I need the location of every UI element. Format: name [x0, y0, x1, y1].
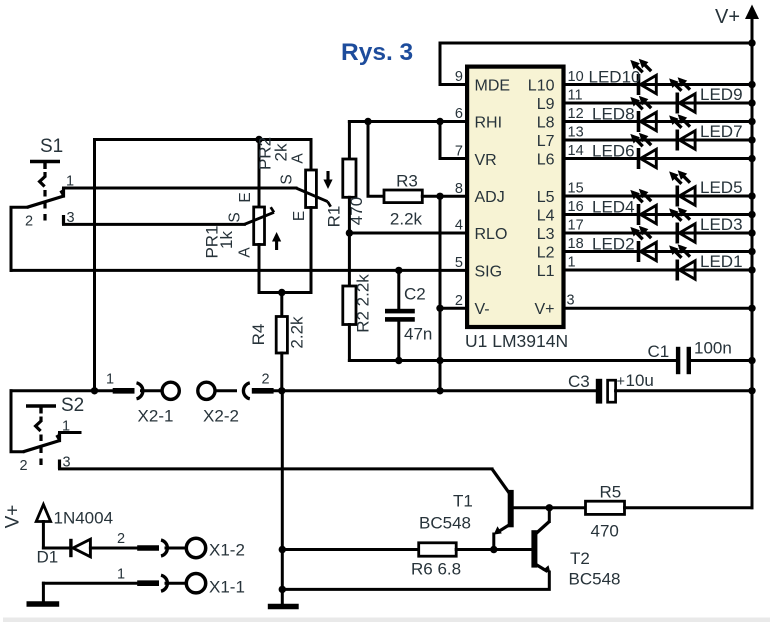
ground (center): [268, 604, 299, 609]
svg-text:LED5: LED5: [700, 178, 743, 197]
wire S1 contact1 to PR2 wiper: [64, 187, 297, 190]
node SIG/C2 junction: [395, 267, 402, 274]
svg-text:RLO: RLO: [475, 226, 508, 243]
svg-text:2.2k: 2.2k: [288, 316, 307, 349]
svg-text:X2-1: X2-1: [138, 407, 174, 426]
svg-text:1: 1: [568, 255, 576, 271]
potentiometer PR1 1k: [203, 192, 282, 258]
wire pin2 V-: [440, 307, 465, 310]
node ADJ junction: [436, 193, 443, 200]
resistor R1: [325, 159, 367, 227]
svg-text:LED1: LED1: [700, 252, 743, 271]
svg-text:100n: 100n: [694, 339, 732, 358]
svg-text:16: 16: [568, 199, 584, 215]
IC U1 right pin numbers 10-18 1 3: [567, 69, 584, 309]
svg-text:A: A: [290, 153, 307, 164]
V+ power flag bottom left: [3, 505, 51, 549]
wire S2 contact3 to T1 collector: [60, 467, 493, 470]
connector X1-2: [117, 531, 245, 560]
wire PR2 bottom: [310, 208, 313, 293]
wire MDE top loop: [440, 43, 752, 85]
svg-text:R6 6.8: R6 6.8: [411, 560, 461, 579]
wire X2 bus middle: [274, 389, 596, 392]
capacitor C3 10u: [568, 371, 654, 404]
node V- pin2 junction: [436, 305, 443, 312]
wire S1 contact3 to PR1 wiper: [64, 223, 245, 226]
wire C1 to rail: [691, 359, 752, 362]
node C2/V- bus junction: [395, 357, 402, 364]
capacitor C1: [648, 339, 732, 375]
wire L9 row: [566, 102, 753, 105]
wire T2 collector up to R5 row: [548, 508, 551, 522]
svg-text:X1-1: X1-1: [209, 578, 245, 597]
svg-text:10u: 10u: [626, 371, 654, 390]
svg-text:L6: L6: [537, 151, 555, 168]
svg-text:R3: R3: [396, 172, 418, 191]
svg-text:L1: L1: [537, 263, 555, 280]
svg-text:A: A: [237, 247, 254, 258]
LED LED9: [669, 77, 742, 113]
connector X1-1: [117, 567, 245, 597]
wire R6 to T2 base: [456, 548, 531, 551]
wire R1 bottom to RLO: [348, 197, 351, 233]
node top wire/rail junction: [748, 39, 755, 46]
resistor R3: [384, 172, 423, 229]
V+ rail (right side): [751, 43, 754, 508]
svg-text:2: 2: [25, 214, 33, 230]
node emitter bus/ground column junction: [279, 586, 286, 593]
svg-text:1: 1: [106, 372, 114, 388]
svg-text:S: S: [279, 174, 296, 184]
wire top pot bus: [95, 140, 312, 391]
node L8/rail junction: [748, 118, 755, 125]
svg-text:2: 2: [262, 372, 270, 388]
svg-text:C1: C1: [648, 342, 670, 361]
wire L10 row: [566, 83, 753, 86]
node L10/rail junction: [748, 81, 755, 88]
svg-text:BC548: BC548: [569, 570, 621, 589]
IC U1 body: [467, 67, 563, 327]
wire R4 top: [280, 293, 283, 317]
svg-text:ADJ: ADJ: [475, 189, 505, 206]
LED LED5: [669, 170, 742, 206]
wire T1 base to R5: [514, 506, 586, 509]
svg-text:2: 2: [455, 293, 463, 309]
LED LED3: [669, 207, 742, 243]
svg-text:C3: C3: [568, 372, 590, 391]
svg-text:E: E: [237, 192, 254, 202]
wire ground drop left: [42, 583, 45, 604]
svg-text:L9: L9: [537, 96, 555, 113]
svg-text:2.2k: 2.2k: [390, 210, 423, 229]
svg-text:2k: 2k: [272, 143, 291, 161]
node R6/ground column junction: [279, 546, 286, 553]
svg-text:LED2: LED2: [592, 235, 635, 254]
capacitor C2: [385, 285, 432, 344]
wire pin4 RLO row: [349, 232, 465, 235]
node L9/rail junction: [748, 99, 755, 106]
svg-text:12: 12: [568, 106, 584, 122]
IC U1 right pin names: [528, 77, 555, 318]
svg-text:11: 11: [568, 88, 583, 104]
IC U1 left pin numbers 9 6 7 8 4 5 2: [455, 69, 463, 309]
wire L5 row: [566, 195, 753, 198]
LED LED8: [592, 96, 656, 132]
svg-text:V+: V+: [534, 301, 554, 318]
wire D1 anode row: [43, 547, 69, 550]
svg-text:8: 8: [455, 181, 463, 197]
resistor R4: [249, 316, 307, 353]
svg-text:1N4004: 1N4004: [54, 509, 114, 528]
svg-text:L7: L7: [537, 133, 555, 150]
wire V- bus: [349, 359, 676, 362]
node pin2 line/V- bus junction: [436, 357, 443, 364]
wire L4 row: [566, 213, 753, 216]
V+ power flag top right: [715, 5, 759, 45]
LED LED10: [589, 59, 657, 95]
node pin6/R3 junction: [364, 118, 371, 125]
svg-text:+: +: [617, 374, 625, 390]
wire R4 bottom: [280, 353, 283, 391]
switch S2: [23, 406, 60, 470]
node L3/rail junction: [748, 229, 755, 236]
wire R2 top riser: [348, 233, 351, 286]
wire pot join bar: [259, 291, 311, 294]
wire pin7 VR to pin6 link: [440, 122, 465, 159]
node PR1 top junction: [255, 136, 262, 143]
wire C2 top: [397, 270, 400, 309]
potentiometer PR2 2k: [256, 137, 333, 221]
wire T1 emitter down: [492, 534, 495, 550]
svg-text:5: 5: [455, 255, 463, 271]
resistor R6 6.8: [411, 543, 461, 579]
wire R2 bottom to V- bus: [348, 325, 351, 361]
node L4/rail junction: [748, 211, 755, 218]
wire C2 bottom: [397, 322, 400, 361]
svg-text:T2: T2: [570, 549, 590, 568]
svg-text:RHI: RHI: [475, 114, 503, 131]
svg-text:2: 2: [20, 458, 28, 474]
LED LED7: [669, 114, 742, 150]
svg-text:LED3: LED3: [700, 215, 743, 234]
wire SIG bus pin5: [11, 269, 465, 272]
svg-text:1k: 1k: [217, 231, 236, 249]
svg-text:15: 15: [568, 181, 584, 197]
svg-text:SIG: SIG: [475, 263, 503, 280]
node T1 emitter/R6 row junction: [490, 546, 497, 553]
svg-text:E: E: [291, 211, 308, 221]
svg-text:Rys. 3: Rys. 3: [341, 39, 413, 66]
wire R3 riser: [368, 122, 384, 197]
node pin6/pin7 junction: [436, 118, 443, 125]
svg-text:X2-2: X2-2: [203, 407, 239, 426]
node RLO/R1/R2 junction: [346, 229, 353, 236]
svg-text:S2: S2: [61, 395, 84, 416]
resistor R2: [343, 274, 373, 333]
wire L1 row: [566, 269, 753, 272]
svg-text:X1-2: X1-2: [209, 541, 245, 560]
node T2 collector/R5 row junction: [546, 504, 553, 511]
svg-text:L5: L5: [537, 189, 555, 206]
wire L7 row: [566, 139, 753, 142]
IC U1 left pin names: [475, 77, 511, 318]
svg-text:L4: L4: [537, 207, 555, 224]
wire R3 to ADJ pin8: [422, 195, 465, 198]
node pin3/rail junction: [748, 305, 755, 312]
svg-text:3: 3: [567, 293, 575, 309]
wire PR1 bottom: [258, 245, 261, 293]
svg-text:470: 470: [591, 522, 619, 541]
node C1/rail junction: [748, 357, 755, 364]
diode D1: [37, 539, 91, 567]
svg-text:S1: S1: [40, 136, 63, 157]
node bus/riser junction: [91, 387, 98, 394]
svg-text:R5: R5: [600, 483, 622, 502]
wire L6 row: [566, 157, 753, 160]
resistor R5 470: [586, 483, 625, 541]
ground (left): [27, 601, 60, 606]
connector X2-1: [106, 372, 179, 426]
node C3 bus/rail junction: [748, 387, 755, 394]
svg-text:47n: 47n: [404, 325, 432, 344]
wire S2 contact1 stub: [60, 431, 81, 434]
svg-text:R2 2.2k: R2 2.2k: [354, 274, 373, 333]
wire R6 row left: [282, 548, 418, 551]
svg-text:U1 LM3914N: U1 LM3914N: [465, 331, 568, 351]
node L5/rail junction: [748, 192, 755, 199]
wire T2 emitter down: [282, 572, 549, 589]
svg-text:R4: R4: [249, 324, 268, 346]
svg-text:2: 2: [117, 531, 125, 547]
svg-text:LED6: LED6: [592, 142, 635, 161]
node R4 top junction: [278, 289, 285, 296]
node L2/rail junction: [748, 248, 755, 255]
svg-text:D1: D1: [37, 548, 59, 567]
svg-text:6: 6: [455, 106, 463, 122]
transistor T2 BC548: [531, 522, 620, 589]
LED LED6: [592, 133, 656, 169]
svg-text:V+: V+: [3, 505, 24, 529]
LED LED2: [592, 226, 656, 262]
node R4/bus junction: [278, 387, 285, 394]
wire X2 bus left: [11, 389, 113, 392]
svg-text:1: 1: [117, 567, 125, 583]
svg-text:17: 17: [568, 218, 584, 234]
LED LED4: [592, 189, 656, 225]
wire pin6 RHI row: [349, 120, 465, 123]
svg-text:4: 4: [455, 218, 463, 234]
svg-text:LED7: LED7: [700, 122, 743, 141]
svg-text:LED9: LED9: [700, 85, 743, 104]
svg-text:10: 10: [568, 69, 584, 85]
wire R5 to rail: [625, 506, 753, 509]
scan artifact bar bottom: [3, 618, 770, 622]
svg-text:LED4: LED4: [592, 198, 635, 217]
node L6/rail junction: [748, 155, 755, 162]
node L7/rail junction: [748, 136, 755, 143]
wire X1-1 row: [43, 582, 137, 585]
svg-text:T1: T1: [453, 492, 473, 511]
svg-text:VR: VR: [475, 152, 497, 169]
wire PR1 top: [258, 140, 261, 208]
connector X2-2: [198, 372, 274, 426]
svg-text:14: 14: [568, 143, 584, 159]
wire S2 pole: [11, 391, 23, 452]
node L1/rail junction: [748, 266, 755, 273]
svg-text:MDE: MDE: [475, 77, 511, 94]
svg-text:9: 9: [455, 69, 463, 85]
svg-text:V-: V-: [475, 301, 490, 318]
svg-text:L8: L8: [537, 114, 555, 131]
wire S1 pole: [11, 207, 27, 270]
svg-text:18: 18: [568, 236, 584, 252]
svg-text:S: S: [227, 212, 244, 222]
node pin2-line/bus junction: [436, 387, 443, 394]
switch S1: [27, 162, 64, 226]
wire C3 to rail: [616, 389, 752, 392]
wire ADJ/V- vertical: [439, 196, 442, 390]
svg-text:L3: L3: [537, 226, 555, 243]
svg-text:L10: L10: [528, 77, 555, 94]
svg-text:L2: L2: [537, 244, 555, 261]
svg-text:LED8: LED8: [592, 105, 635, 124]
wire L8 row: [566, 120, 753, 123]
transistor T1 BC548: [419, 469, 514, 535]
wire R1 top riser: [348, 122, 351, 160]
svg-text:V+: V+: [715, 6, 740, 28]
wire L2 row: [566, 250, 753, 253]
LED LED1: [669, 244, 742, 280]
wire pin3 V+ row: [566, 307, 753, 310]
svg-text:BC548: BC548: [419, 514, 471, 533]
svg-text:LED10: LED10: [589, 68, 641, 87]
svg-text:13: 13: [568, 125, 584, 141]
wire ground column: [281, 391, 284, 607]
wire L3 row: [566, 232, 753, 235]
svg-text:R1: R1: [325, 206, 344, 228]
svg-text:C2: C2: [404, 285, 426, 304]
